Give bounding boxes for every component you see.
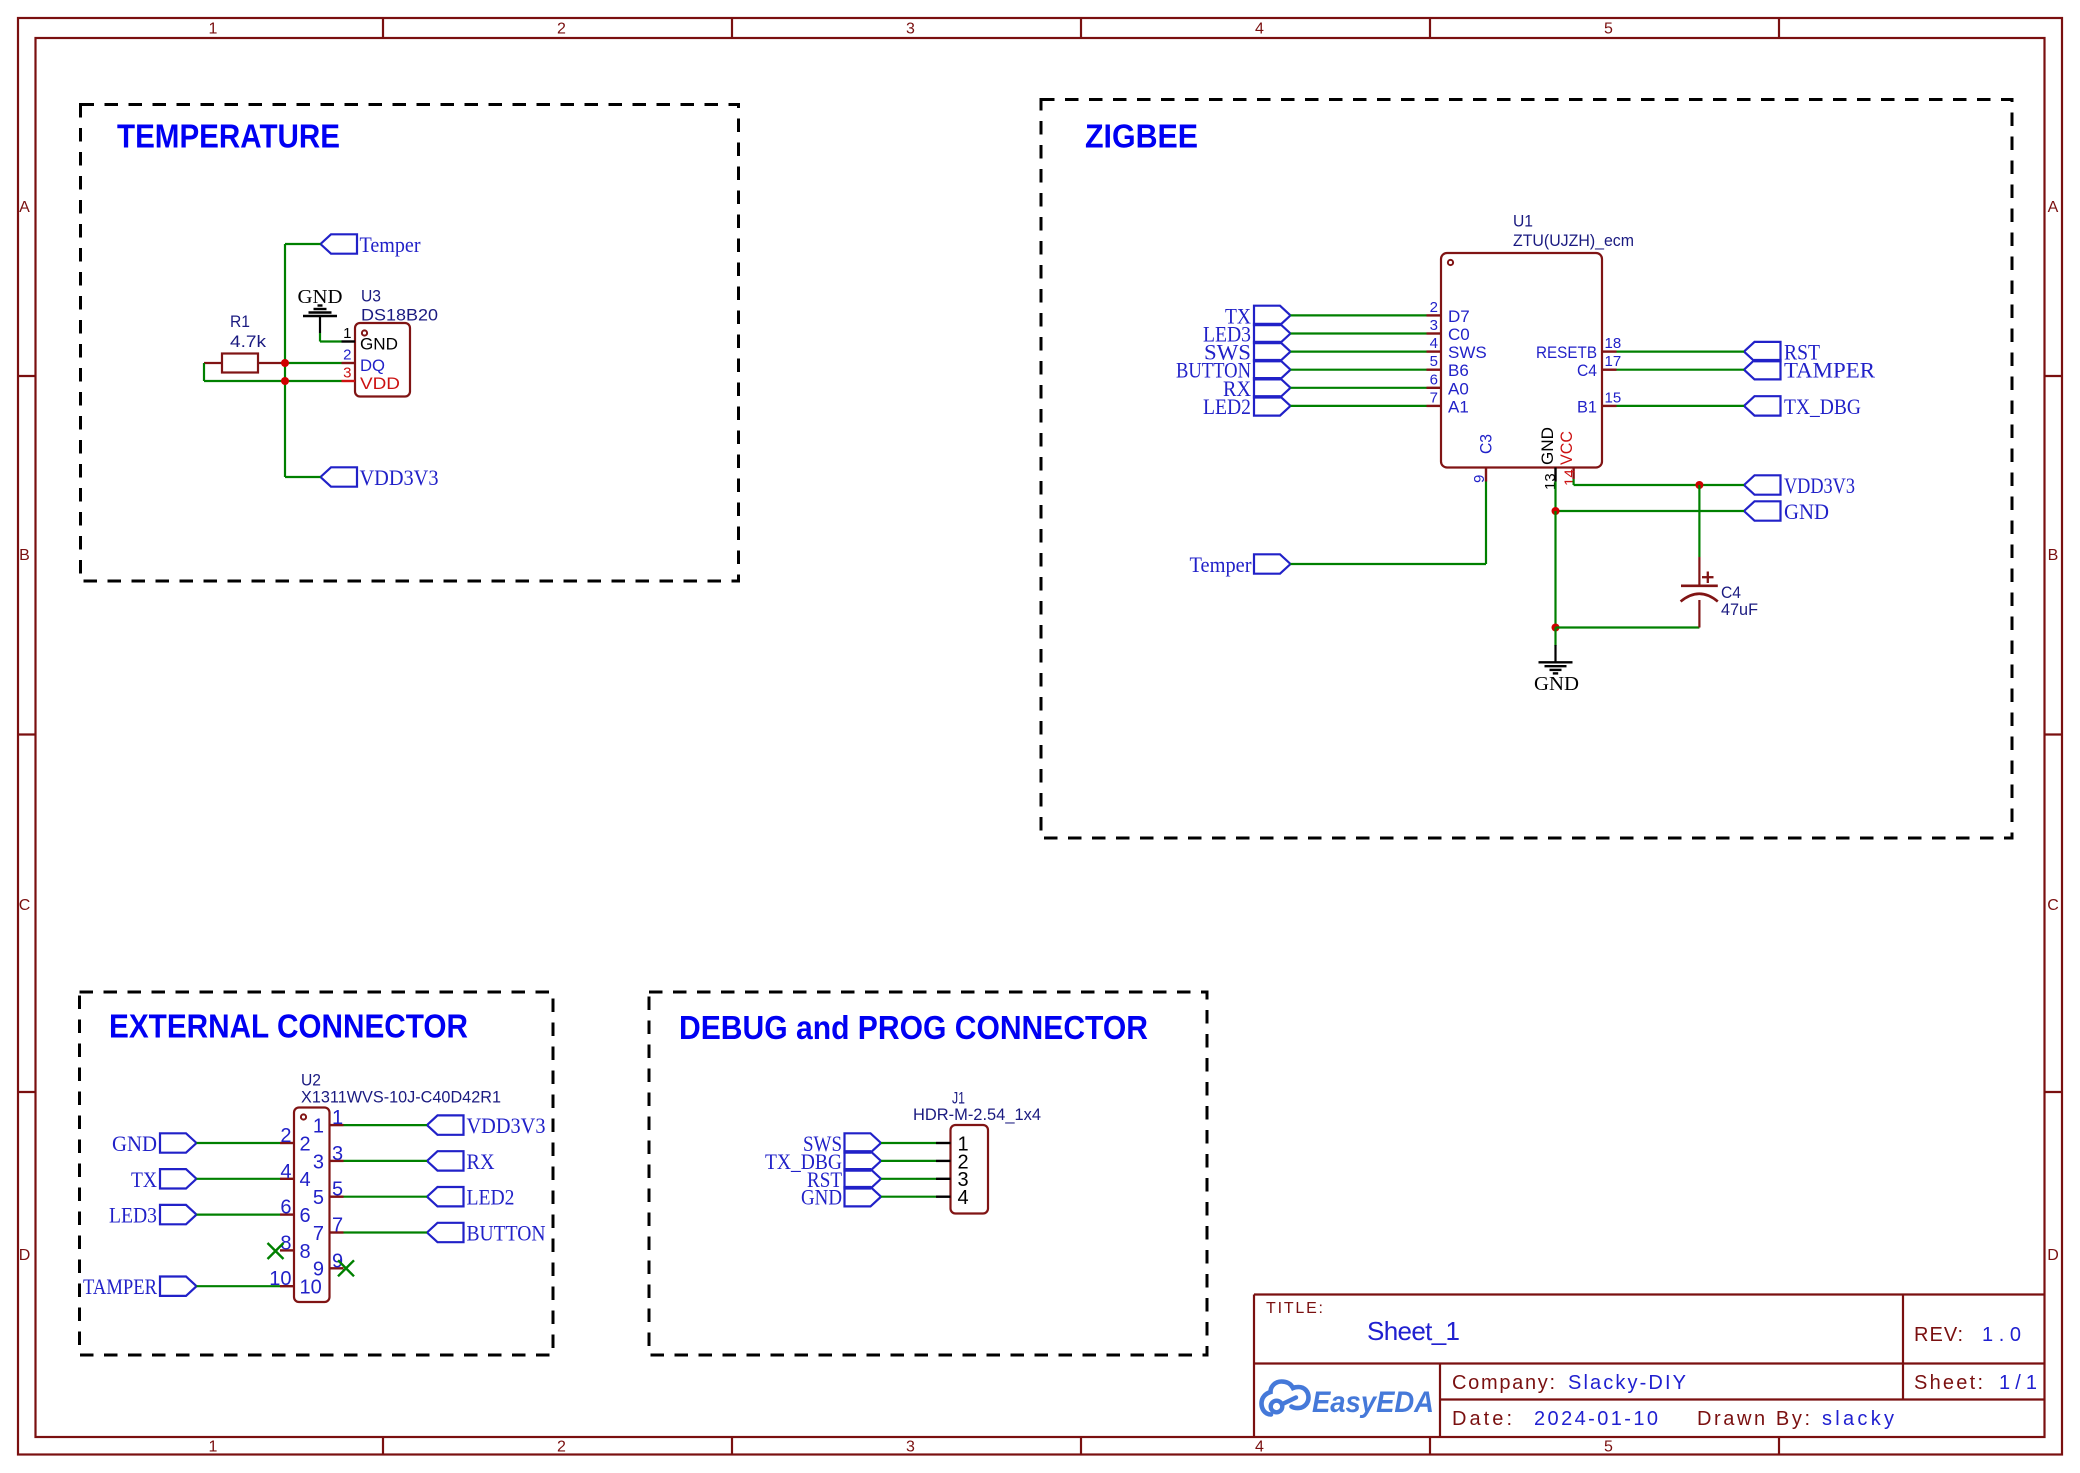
svg-text:TITLE:: TITLE: xyxy=(1266,1300,1323,1317)
EasyEDA logo xyxy=(1262,1382,1435,1420)
svg-text:D: D xyxy=(19,1247,31,1264)
junction GND net lower xyxy=(1552,624,1560,632)
svg-text:2: 2 xyxy=(343,347,351,364)
svg-text:A: A xyxy=(2048,199,2059,216)
junction VDD xyxy=(281,377,289,385)
svg-text:Slacky-DIY: Slacky-DIY xyxy=(1568,1372,1686,1394)
net flag LED3 xyxy=(1203,322,1291,347)
svg-text:4: 4 xyxy=(1255,21,1264,38)
svg-text:C: C xyxy=(2047,897,2059,914)
svg-text:47uF: 47uF xyxy=(1721,600,1758,619)
svg-text:LED2: LED2 xyxy=(467,1185,515,1210)
svg-text:A1: A1 xyxy=(1448,397,1469,416)
svg-text:B6: B6 xyxy=(1448,361,1469,380)
svg-text:1: 1 xyxy=(313,1116,324,1138)
svg-text:7: 7 xyxy=(332,1215,343,1237)
DEBUG and PROG CONNECTOR section dashed box xyxy=(649,992,1207,1355)
net flag RST (debug) xyxy=(807,1167,881,1192)
ground GND (zigbee) xyxy=(1534,645,1579,695)
net flag VDD3V3 (external) xyxy=(427,1113,546,1138)
wire TX_DBG to U1 xyxy=(1617,405,1745,407)
svg-text:3: 3 xyxy=(906,1439,915,1456)
wire GND to C4 bottom xyxy=(1556,626,1700,628)
svg-text:A: A xyxy=(19,199,30,216)
svg-text:LED3: LED3 xyxy=(109,1203,157,1228)
wire GND net down xyxy=(1554,511,1556,628)
svg-text:8: 8 xyxy=(300,1241,311,1263)
net flag SWS xyxy=(1204,340,1291,365)
TEMPERATURE section dashed box xyxy=(81,105,739,582)
svg-text:Temper: Temper xyxy=(1190,552,1253,577)
svg-text:1: 1 xyxy=(343,325,351,342)
svg-text:Company:: Company: xyxy=(1452,1372,1555,1394)
net flag RST xyxy=(1744,340,1820,365)
svg-text:GND: GND xyxy=(801,1185,842,1210)
svg-text:TAMPER: TAMPER xyxy=(83,1274,157,1299)
svg-text:4: 4 xyxy=(300,1169,311,1191)
svg-text:2: 2 xyxy=(1430,299,1438,316)
wire RST to J1 xyxy=(881,1178,936,1180)
svg-text:B1: B1 xyxy=(1577,397,1597,416)
net flag TAMPER xyxy=(1744,358,1875,383)
wire BUTTON to U2 xyxy=(344,1231,428,1233)
svg-text:DS18B20: DS18B20 xyxy=(361,306,438,325)
svg-text:2: 2 xyxy=(300,1133,311,1155)
svg-text:R1: R1 xyxy=(230,312,250,331)
wire TAMPER to U1 xyxy=(1617,369,1745,371)
svg-text:VCC: VCC xyxy=(1557,431,1576,465)
wire LED3 to U1 xyxy=(1291,332,1427,334)
wire GND to U2 xyxy=(197,1142,281,1144)
svg-text:2: 2 xyxy=(557,1439,566,1456)
svg-text:C3: C3 xyxy=(1477,434,1496,454)
wire TX to U2 xyxy=(197,1178,281,1180)
svg-text:GND: GND xyxy=(112,1131,157,1156)
svg-text:1: 1 xyxy=(332,1107,343,1129)
net flag SWS (debug) xyxy=(803,1131,881,1156)
svg-text:Drawn By:: Drawn By: xyxy=(1697,1408,1810,1430)
svg-text:3: 3 xyxy=(332,1143,343,1165)
svg-text:DQ: DQ xyxy=(360,356,385,375)
svg-text:4: 4 xyxy=(1430,335,1438,352)
net flag LED2 xyxy=(1203,394,1291,419)
net flag BUTTON (external) xyxy=(427,1221,546,1246)
svg-text:ZTU(UJZH)_ecm: ZTU(UJZH)_ecm xyxy=(1513,231,1634,250)
svg-text:3: 3 xyxy=(1430,317,1438,334)
svg-text:5: 5 xyxy=(332,1179,343,1201)
svg-text:5: 5 xyxy=(1604,21,1613,38)
svg-text:X1311WVS-10J-C40D42R1: X1311WVS-10J-C40D42R1 xyxy=(301,1088,501,1107)
net flag TX xyxy=(1225,303,1291,328)
net flag VDD3V3 (zigbee) xyxy=(1744,473,1855,498)
svg-text:ZIGBEE: ZIGBEE xyxy=(1085,118,1198,155)
connector U2 X1311WVS-10J-C40D42R1 xyxy=(269,1071,501,1303)
wire Temper to net xyxy=(285,243,321,245)
svg-text:14: 14 xyxy=(1562,469,1579,486)
svg-text:3: 3 xyxy=(906,21,915,38)
wire LED3 to U2 xyxy=(197,1213,281,1215)
temperature sensor U3 DS18B20 xyxy=(342,287,439,397)
wire Temper to U1 pin9 xyxy=(1291,482,1487,565)
net flag Temper xyxy=(321,232,422,257)
svg-text:4: 4 xyxy=(280,1161,291,1183)
wire vertical net Temper/DQ/VDD3V3 xyxy=(284,244,286,477)
net flag GND (external) xyxy=(112,1131,197,1156)
net flag TAMPER (external) xyxy=(83,1274,197,1299)
svg-text:4.7k: 4.7k xyxy=(230,332,267,351)
wire pin13 to GND flag xyxy=(1556,482,1745,512)
svg-text:17: 17 xyxy=(1605,353,1622,370)
svg-text:REV:: REV: xyxy=(1914,1324,1963,1346)
row letters xyxy=(19,199,2059,1264)
svg-text:6: 6 xyxy=(280,1197,291,1219)
wire SWS to J1 xyxy=(881,1142,936,1144)
junction DQ xyxy=(281,359,289,367)
svg-text:7: 7 xyxy=(313,1223,324,1245)
wire to VDD3V3 xyxy=(285,476,321,478)
header J1 HDR-M-2.54_1x4 xyxy=(913,1089,1041,1214)
resistor R1 xyxy=(204,312,285,373)
svg-text:C: C xyxy=(19,897,31,914)
svg-text:B: B xyxy=(19,547,30,564)
svg-text:VDD3V3: VDD3V3 xyxy=(360,465,439,490)
svg-text:2: 2 xyxy=(280,1125,291,1147)
svg-text:C4: C4 xyxy=(1577,361,1597,380)
title block texts xyxy=(1266,1300,2037,1430)
svg-text:DEBUG and PROG CONNECTOR: DEBUG and PROG CONNECTOR xyxy=(679,1009,1148,1046)
svg-text:1: 1 xyxy=(209,1439,218,1456)
wire TX_DBG to J1 xyxy=(881,1160,936,1162)
svg-text:HDR-M-2.54_1x4: HDR-M-2.54_1x4 xyxy=(913,1105,1041,1124)
svg-text:7: 7 xyxy=(1430,389,1438,406)
zigbee module U1 ZTU(UJZH)_ecm xyxy=(1427,212,1635,491)
wire VDD3V3 to U2 xyxy=(344,1124,428,1126)
wire R1 left to VDD row xyxy=(203,363,205,381)
svg-text:VDD3V3: VDD3V3 xyxy=(1784,473,1855,498)
svg-text:VDD: VDD xyxy=(360,374,400,393)
net flag Temper (zigbee) xyxy=(1190,552,1291,577)
net flag BUTTON xyxy=(1176,358,1291,383)
svg-text:5: 5 xyxy=(1604,1439,1613,1456)
wire RX to U1 xyxy=(1291,387,1427,389)
net flag VDD3V3 (temperature) xyxy=(321,465,439,490)
svg-text:1.0: 1.0 xyxy=(1982,1324,2021,1346)
svg-text:TAMPER: TAMPER xyxy=(1784,358,1875,383)
svg-text:BUTTON: BUTTON xyxy=(467,1221,546,1246)
svg-text:15: 15 xyxy=(1605,389,1622,406)
net flag TX (external) xyxy=(131,1167,197,1192)
net flag RX xyxy=(1223,376,1291,401)
svg-text:6: 6 xyxy=(300,1205,311,1227)
wire TX to U1 xyxy=(1291,314,1427,316)
column numbers xyxy=(209,21,1614,1456)
svg-text:3: 3 xyxy=(313,1151,324,1173)
wire SWS to U1 xyxy=(1291,351,1427,353)
svg-text:GND: GND xyxy=(1538,427,1557,465)
wire DQ row xyxy=(285,362,342,364)
net flag TX_DBG xyxy=(1744,394,1861,419)
svg-text:Temper: Temper xyxy=(360,232,422,257)
svg-text:B: B xyxy=(2048,547,2059,564)
svg-text:5: 5 xyxy=(1430,353,1438,370)
net flag LED3 (external) xyxy=(109,1203,197,1228)
wire GND to U3 pin1 xyxy=(320,333,342,342)
svg-text:2: 2 xyxy=(557,21,566,38)
no-connect X pin 9 xyxy=(338,1260,354,1276)
svg-text:GND: GND xyxy=(1784,499,1829,524)
svg-text:U1: U1 xyxy=(1513,212,1533,231)
svg-text:TX_DBG: TX_DBG xyxy=(1784,394,1861,419)
wire LED2 to U2 xyxy=(344,1196,428,1198)
wire TAMPER to U2 xyxy=(197,1285,281,1287)
net flag GND (zigbee) xyxy=(1744,499,1829,524)
svg-text:EasyEDA: EasyEDA xyxy=(1312,1386,1434,1419)
title block xyxy=(1254,1295,2044,1438)
svg-text:A0: A0 xyxy=(1448,379,1469,398)
wire RX to U2 xyxy=(344,1160,428,1162)
wire VCC to VDD3V3 xyxy=(1574,479,1744,485)
svg-text:1: 1 xyxy=(209,21,218,38)
svg-text:LED2: LED2 xyxy=(1203,394,1251,419)
ground GND (temperature) xyxy=(298,286,343,333)
svg-text:GND: GND xyxy=(360,335,398,354)
svg-text:U3: U3 xyxy=(361,287,381,306)
svg-text:D: D xyxy=(2047,1247,2059,1264)
svg-text:5: 5 xyxy=(313,1187,324,1209)
svg-text:EXTERNAL CONNECTOR: EXTERNAL CONNECTOR xyxy=(109,1008,468,1045)
svg-text:6: 6 xyxy=(1430,371,1438,388)
wire junction to ground xyxy=(1554,628,1556,647)
wire LED2 to U1 xyxy=(1291,405,1427,407)
wire BUTTON to U1 xyxy=(1291,369,1427,371)
svg-text:VDD3V3: VDD3V3 xyxy=(467,1113,546,1138)
svg-text:Sheet:: Sheet: xyxy=(1914,1372,1983,1394)
net flag TX_DBG (debug) xyxy=(765,1149,881,1174)
svg-text:GND: GND xyxy=(1534,673,1579,695)
svg-text:RESETB: RESETB xyxy=(1536,343,1597,362)
wire GND to J1 xyxy=(881,1196,936,1198)
svg-text:1/1: 1/1 xyxy=(1999,1372,2037,1394)
svg-text:4: 4 xyxy=(1255,1439,1264,1456)
junction GND net upper xyxy=(1552,507,1560,515)
net flag LED2 (external) xyxy=(427,1185,515,1210)
svg-text:TX: TX xyxy=(131,1167,157,1192)
svg-text:RX: RX xyxy=(467,1149,495,1174)
svg-text:TEMPERATURE: TEMPERATURE xyxy=(117,118,340,155)
no-connect X pin 8 xyxy=(268,1243,284,1259)
svg-text:Sheet_1: Sheet_1 xyxy=(1367,1316,1460,1346)
net flag GND (debug) xyxy=(801,1185,881,1210)
ZIGBEE section dashed box xyxy=(1041,100,2012,839)
svg-text:C0: C0 xyxy=(1448,325,1470,344)
svg-text:3: 3 xyxy=(343,365,351,382)
EXTERNAL CONNECTOR section dashed box xyxy=(80,992,554,1355)
wire RST to U1 xyxy=(1617,351,1745,353)
junction VCC/C4 xyxy=(1695,481,1703,489)
capacitor C4 47uF xyxy=(1681,485,1758,628)
svg-text:4: 4 xyxy=(958,1187,969,1209)
net flag RX (external) xyxy=(427,1149,495,1174)
svg-text:9: 9 xyxy=(313,1259,324,1281)
svg-text:18: 18 xyxy=(1605,335,1622,352)
svg-text:D7: D7 xyxy=(1448,307,1470,326)
wire VDD row xyxy=(204,380,342,382)
svg-text:SWS: SWS xyxy=(1448,343,1487,362)
